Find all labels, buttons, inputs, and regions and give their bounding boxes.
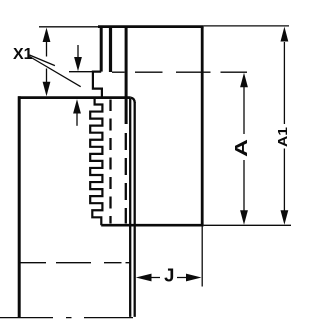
leader line X1 to inner dimension <box>30 57 81 87</box>
svg-text:A1: A1 <box>276 127 290 147</box>
extension line top-right for A1 <box>204 25 289 27</box>
extension line of serration step top <box>69 71 92 73</box>
dimension J arrow left <box>136 274 152 282</box>
vertical edge V1 <box>100 27 103 72</box>
dimension X1 inner upper shaft <box>77 45 79 58</box>
dimension A1 arrow down <box>281 210 289 225</box>
centerline horizontal upper <box>112 71 247 73</box>
dimension X1 inner arrow up <box>73 99 81 113</box>
hidden line dashed at V2 <box>109 100 111 224</box>
top edge of jaw block <box>98 25 204 28</box>
dimension X1 inner lower shaft <box>76 113 78 126</box>
dimension J arrow right <box>186 274 202 282</box>
extension line bottom-right for A and A1 <box>204 224 291 226</box>
guide inner vertical line <box>129 99 131 317</box>
dimension A arrow down <box>240 210 248 225</box>
svg-text:J: J <box>164 265 174 286</box>
centerline horizontal bottom axis <box>0 317 133 319</box>
centerline horizontal middle <box>19 262 130 264</box>
vertical edge V4 <box>125 27 128 124</box>
dimension X1 inner arrow down <box>74 57 82 71</box>
svg-text:X1: X1 <box>13 46 33 63</box>
rounded corner fillet of guide <box>131 98 135 103</box>
svg-text:A: A <box>231 139 251 157</box>
dimension X1 outer arrow up <box>43 28 51 42</box>
guide outer vertical line <box>134 102 136 317</box>
dimension X1 outer shaft <box>46 42 48 84</box>
chuck body left edge <box>18 96 21 317</box>
bottom edge of jaw block <box>101 224 203 227</box>
dimension A arrow up <box>240 73 248 88</box>
right edge of jaw block <box>201 27 204 226</box>
extension line top-left for X1 <box>39 26 98 28</box>
dimension A1 shaft <box>283 42 285 211</box>
chuck body top edge <box>18 96 131 99</box>
vertical edge V2 <box>109 27 112 72</box>
dimension A1 arrow up <box>281 27 289 42</box>
serration step outline <box>93 72 102 98</box>
dimension A shaft <box>243 87 245 211</box>
dimension X1 outer arrow down <box>43 82 51 96</box>
leader line X1 to outer dimension <box>30 55 55 66</box>
extension line of right edge down to J <box>201 225 203 286</box>
dimension J shaft <box>151 277 187 279</box>
hidden line dashed at V4 <box>125 133 127 224</box>
serration teeth <box>90 99 102 225</box>
